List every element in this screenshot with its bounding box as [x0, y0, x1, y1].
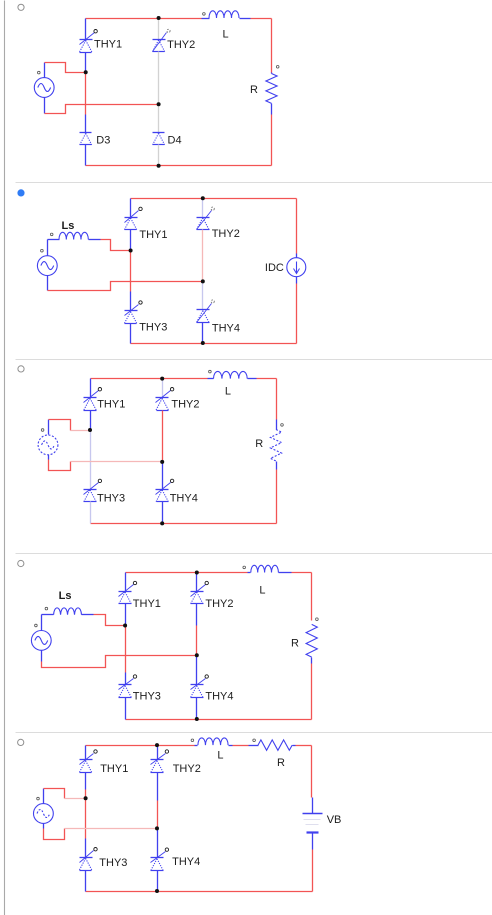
svg-text:THY4: THY4: [205, 690, 233, 702]
svg-text:L: L: [259, 584, 265, 596]
svg-text:THY2: THY2: [205, 598, 233, 610]
svg-text:THY3: THY3: [133, 690, 161, 702]
svg-text:R: R: [291, 638, 299, 650]
svg-text:THY4: THY4: [172, 856, 200, 868]
svg-text:D3: D3: [96, 134, 110, 146]
svg-text:L: L: [225, 385, 231, 397]
svg-text:L: L: [217, 750, 223, 762]
svg-text:R: R: [250, 84, 258, 96]
svg-text:THY2: THY2: [173, 763, 201, 775]
svg-text:THY3: THY3: [99, 857, 127, 869]
svg-text:R: R: [277, 757, 285, 769]
svg-text:THY1: THY1: [97, 398, 125, 410]
svg-text:THY2: THY2: [167, 39, 195, 51]
svg-text:THY2: THY2: [171, 398, 199, 410]
svg-text:THY3: THY3: [97, 492, 125, 504]
svg-text:D4: D4: [168, 134, 182, 146]
svg-text:Ls: Ls: [59, 590, 72, 602]
svg-text:THY1: THY1: [100, 763, 128, 775]
svg-text:THY1: THY1: [133, 598, 161, 610]
svg-text:THY2: THY2: [212, 228, 240, 240]
svg-text:THY4: THY4: [212, 322, 240, 334]
svg-text:R: R: [255, 438, 263, 450]
svg-text:L: L: [223, 29, 229, 41]
svg-text:IDC: IDC: [265, 262, 284, 274]
svg-text:Ls: Ls: [62, 220, 75, 232]
svg-text:VB: VB: [327, 814, 342, 826]
svg-text:THY1: THY1: [139, 229, 167, 241]
svg-text:THY4: THY4: [170, 492, 198, 504]
svg-text:THY1: THY1: [94, 39, 122, 51]
svg-text:THY3: THY3: [139, 322, 167, 334]
